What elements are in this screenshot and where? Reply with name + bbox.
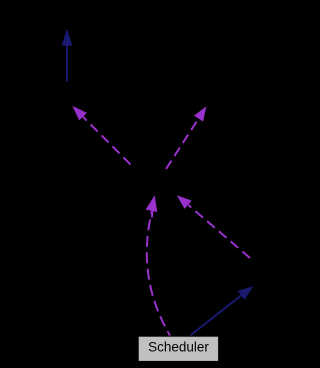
inheritance arrow from Scheduler to right node (solid blue, diagonal): head <box>238 287 253 300</box>
usage arrow from Scheduler to center node (curved dashed purple): head <box>146 196 157 212</box>
inheritance arrow from Scheduler to right node (solid blue, diagonal): shaft <box>191 295 242 335</box>
usage arrow from right node to center node (dashed purple, up-left): head <box>178 196 192 209</box>
inheritance arrow (solid blue, vertical, top-left): shaft <box>66 45 68 82</box>
usage arrow to upper-right node (dashed purple, up-right): head <box>195 107 207 121</box>
node Scheduler: box <box>138 336 218 361</box>
svg-text:Scheduler: Scheduler <box>148 339 209 354</box>
usage arrow to left node (dashed purple, up-left): shaft <box>83 117 134 168</box>
inheritance arrow (solid blue, vertical, top-left): head <box>62 30 72 46</box>
usage arrow from Scheduler to center node (curved dashed purple): shaft <box>147 211 170 336</box>
usage arrow from right node to center node (dashed purple, up-left): shaft <box>188 205 250 258</box>
usage arrow to left node (dashed purple, up-left): head <box>73 107 86 120</box>
usage arrow from Scheduler to center node (curved dashed purple): head tail spike <box>151 207 154 218</box>
usage arrow to upper-right node (dashed purple, up-right): shaft <box>166 118 199 169</box>
